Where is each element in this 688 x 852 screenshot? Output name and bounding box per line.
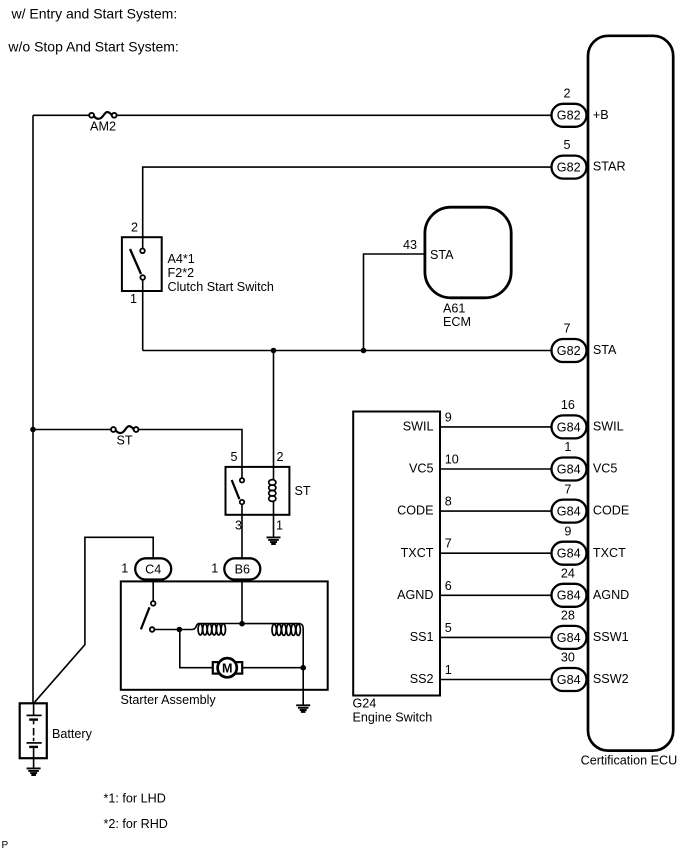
- node junction STA/relay: [271, 348, 277, 354]
- wire ST fuse to relay pin 5: [139, 430, 243, 467]
- connector B6: [211, 558, 260, 579]
- wire relay pin 2 from STA junction: [273, 351, 275, 467]
- svg-text:ST: ST: [116, 433, 132, 447]
- ground relay: [267, 537, 281, 544]
- connector G82 pin 7 (STA): [552, 322, 618, 363]
- svg-text:*2: for RHD: *2: for RHD: [104, 817, 168, 831]
- svg-text:9: 9: [564, 524, 571, 538]
- svg-text:1: 1: [211, 561, 218, 575]
- fuse AM2: [89, 112, 116, 133]
- motor M starter: [213, 658, 242, 677]
- svg-text:G24: G24: [353, 696, 377, 710]
- svg-text:8: 8: [445, 495, 452, 509]
- svg-text:ECM: ECM: [443, 315, 471, 329]
- svg-text:TXCT: TXCT: [593, 546, 626, 560]
- svg-text:5: 5: [445, 621, 452, 635]
- clutch start switch A4/F2: [122, 221, 274, 307]
- svg-text:w/ Entry and Start System:: w/ Entry and Start System:: [11, 6, 178, 22]
- ECU certification box: [588, 36, 673, 751]
- wire battery to connector C4: [34, 537, 154, 703]
- wire relay pin 3 to connector B6: [241, 515, 243, 559]
- svg-text:SS1: SS1: [410, 630, 434, 644]
- wire battery to ground: [33, 758, 35, 768]
- svg-text:G84: G84: [557, 547, 581, 561]
- connector G84 pin 9 (TXCT): [552, 524, 627, 564]
- svg-text:1: 1: [445, 663, 452, 677]
- svg-text:A61: A61: [443, 302, 465, 316]
- relay ST: [226, 450, 311, 532]
- coil starter pull-in: [179, 624, 242, 636]
- svg-text:1: 1: [564, 440, 571, 454]
- svg-text:G84: G84: [557, 505, 581, 519]
- fuse ST: [111, 426, 139, 447]
- wire ST fuse left segment: [33, 429, 111, 431]
- svg-text:G82: G82: [557, 344, 581, 358]
- svg-text:SSW2: SSW2: [593, 672, 629, 686]
- wire TXCT to G84: [440, 552, 552, 554]
- svg-text:CODE: CODE: [397, 504, 433, 518]
- svg-text:2: 2: [131, 221, 138, 235]
- svg-text:AGND: AGND: [593, 588, 629, 602]
- wire SS1 to G84: [440, 636, 552, 638]
- svg-text:2: 2: [276, 450, 283, 464]
- wire CODE to G84: [440, 510, 552, 512]
- svg-text:CODE: CODE: [593, 504, 629, 518]
- svg-text:+B: +B: [593, 108, 609, 122]
- svg-text:G84: G84: [557, 462, 581, 476]
- coil starter hold-in: [242, 624, 303, 668]
- svg-text:Starter Assembly: Starter Assembly: [121, 693, 217, 707]
- svg-text:Certification ECU: Certification ECU: [581, 753, 678, 767]
- svg-text:TXCT: TXCT: [401, 546, 434, 560]
- wire junction to motor: [180, 630, 213, 668]
- svg-text:Clutch Start Switch: Clutch Start Switch: [168, 280, 274, 294]
- wire clutch switch to STA row: [142, 291, 144, 351]
- svg-text:SWIL: SWIL: [593, 420, 624, 434]
- svg-text:STAR: STAR: [593, 160, 626, 174]
- svg-text:16: 16: [561, 398, 575, 412]
- svg-text:G84: G84: [557, 631, 581, 645]
- svg-text:G82: G82: [557, 109, 581, 123]
- G24 engine switch box: [353, 412, 440, 696]
- svg-text:*1: for LHD: *1: for LHD: [104, 792, 166, 806]
- connector G84 pin 24 (AGND): [552, 567, 630, 607]
- connector G84 pin 1 (VC5): [552, 440, 618, 480]
- starter magnetic switch: [141, 581, 156, 631]
- node junction starter right: [300, 665, 306, 671]
- svg-text:B6: B6: [235, 563, 250, 577]
- svg-text:STA: STA: [593, 343, 617, 357]
- svg-text:1: 1: [121, 561, 128, 575]
- wire SWIL to G84: [440, 426, 552, 428]
- svg-text:M: M: [222, 661, 233, 675]
- connector G82 pin 2 (+B): [552, 86, 609, 127]
- svg-text:1: 1: [276, 519, 283, 533]
- wire STA row: [143, 350, 552, 352]
- svg-text:5: 5: [563, 138, 570, 152]
- svg-text:SS2: SS2: [410, 672, 434, 686]
- wire motor to right junction: [242, 667, 303, 669]
- starter assembly box: [121, 581, 328, 689]
- svg-text:VC5: VC5: [409, 462, 434, 476]
- wire STAR row: [143, 167, 552, 237]
- svg-text:SSW1: SSW1: [593, 630, 629, 644]
- svg-text:w/o Stop And Start System:: w/o Stop And Start System:: [7, 39, 178, 55]
- svg-text:3: 3: [235, 519, 242, 533]
- svg-text:SWIL: SWIL: [403, 420, 434, 434]
- svg-text:G84: G84: [557, 673, 581, 687]
- wire SS2 to G84: [440, 679, 552, 681]
- wire VC5 to G84: [440, 468, 552, 470]
- wire +B feed left segment: [33, 114, 89, 116]
- svg-text:1: 1: [130, 292, 137, 306]
- svg-text:30: 30: [561, 651, 575, 665]
- connector G84 pin 28 (SSW1): [552, 609, 629, 649]
- svg-text:F2*2: F2*2: [168, 266, 195, 280]
- wire AGND to G84: [440, 594, 552, 596]
- connector G84 pin 7 (CODE): [552, 482, 630, 522]
- svg-text:Engine Switch: Engine Switch: [353, 710, 433, 724]
- wire B6 into starter: [241, 580, 243, 624]
- svg-text:28: 28: [561, 609, 575, 623]
- connector C4: [121, 558, 171, 579]
- svg-text:G84: G84: [557, 589, 581, 603]
- svg-text:G84: G84: [557, 420, 581, 434]
- svg-text:7: 7: [564, 482, 571, 496]
- wire relay pin 1 to ground: [273, 515, 275, 538]
- node junction trunk/ST fuse: [30, 427, 36, 433]
- svg-text:AGND: AGND: [397, 588, 433, 602]
- svg-text:AM2: AM2: [90, 119, 116, 133]
- svg-text:7: 7: [563, 322, 570, 336]
- svg-text:9: 9: [445, 410, 452, 424]
- svg-text:STA: STA: [430, 248, 454, 262]
- svg-text:5: 5: [230, 450, 237, 464]
- wire +B feed right segment: [117, 114, 552, 116]
- wire main left trunk: [32, 115, 34, 704]
- battery: [20, 703, 93, 758]
- wire switch to pull-in coil: [155, 629, 180, 631]
- svg-text:P: P: [2, 840, 9, 851]
- svg-text:24: 24: [561, 567, 575, 581]
- svg-text:C4: C4: [145, 563, 161, 577]
- svg-text:7: 7: [445, 537, 452, 551]
- ECM A61: [403, 207, 511, 329]
- ground battery: [27, 768, 41, 775]
- svg-text:VC5: VC5: [593, 462, 618, 476]
- connector G84 pin 30 (SSW2): [552, 651, 629, 691]
- connector G82 pin 5 (STAR): [552, 138, 626, 179]
- svg-text:G82: G82: [557, 161, 581, 175]
- wire starter to ground: [302, 668, 304, 706]
- ground starter: [296, 705, 310, 712]
- node junction starter left: [177, 627, 183, 633]
- svg-text:Battery: Battery: [52, 727, 93, 741]
- connector G84 pin 16 (SWIL): [552, 398, 624, 438]
- node junction STA/ECM: [361, 348, 367, 354]
- svg-text:2: 2: [563, 86, 570, 100]
- svg-text:43: 43: [403, 238, 417, 252]
- node junction under B6: [239, 621, 245, 627]
- svg-text:A4*1: A4*1: [168, 252, 195, 266]
- svg-text:10: 10: [445, 453, 459, 467]
- svg-text:ST: ST: [295, 484, 311, 498]
- svg-text:6: 6: [445, 579, 452, 593]
- wire ECM STA branch: [364, 254, 426, 351]
